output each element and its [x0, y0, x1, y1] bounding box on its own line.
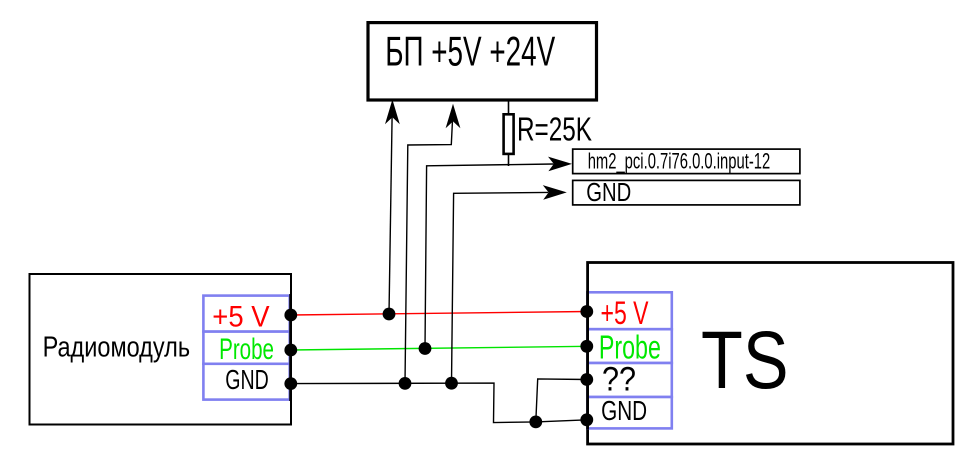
svg-text:Probe: Probe: [219, 333, 274, 366]
svg-text:R=25K: R=25K: [517, 111, 592, 148]
svg-text:hm2_pci.0.7i76.0.0.input-12: hm2_pci.0.7i76.0.0.input-12: [588, 148, 771, 173]
terminal dot left GND: [284, 377, 297, 390]
right terminal block: [588, 292, 672, 428]
svg-text:GND: GND: [586, 179, 631, 207]
TS module left edge over block: [586, 291, 589, 430]
wire +5V up to supply: [389, 110, 392, 314]
arrowhead right hm2: [548, 157, 572, 172]
terminal dot right Probe: [580, 340, 593, 353]
junction dot red wire: [383, 308, 396, 321]
terminal dot left Probe: [284, 344, 297, 357]
label box GND: [573, 179, 800, 207]
svg-text:GND: GND: [601, 395, 647, 426]
wire GND up to supply: [405, 114, 453, 383]
junction dot gnd bottom: [529, 416, 542, 429]
svg-text:??: ??: [602, 361, 636, 399]
terminal dot right GND: [580, 413, 593, 426]
arrowhead up 2: [446, 104, 461, 129]
wire GND up to gnd label: [452, 192, 549, 383]
arrowhead up 1: [385, 100, 400, 125]
power supply box BP +5V +24V: [368, 23, 597, 100]
wire ?? branch: [536, 379, 588, 422]
wire Probe up to hm2 input: [425, 164, 554, 349]
junction dot green wire: [419, 342, 432, 355]
wire +5V red: [291, 312, 588, 316]
module box Radiomodul: [30, 274, 292, 425]
svg-text:БП +5V +24V: БП +5V +24V: [385, 27, 555, 74]
left terminal block: [203, 296, 289, 400]
left module right edge over block: [289, 294, 291, 401]
svg-text:Радиомодуль: Радиомодуль: [43, 332, 191, 364]
svg-text:TS: TS: [701, 315, 789, 406]
junction dot gnd wire A: [399, 377, 412, 390]
module box TS: [588, 263, 953, 445]
resistor R=25K: [504, 101, 592, 166]
wire GND main: [291, 383, 588, 423]
svg-text:+5 V: +5 V: [601, 295, 649, 331]
label box hm2_pci.0.7i76.0.0.input-12: [573, 148, 800, 173]
terminal dot right +5V: [580, 305, 593, 318]
terminal dot right ??: [580, 373, 593, 386]
svg-text:+5 V: +5 V: [212, 300, 270, 333]
wire Probe green: [291, 346, 588, 350]
terminal dot left +5V: [284, 309, 297, 322]
junction dot gnd wire B: [445, 377, 458, 390]
svg-text:GND: GND: [225, 364, 268, 395]
arrowhead right gnd: [543, 185, 567, 200]
